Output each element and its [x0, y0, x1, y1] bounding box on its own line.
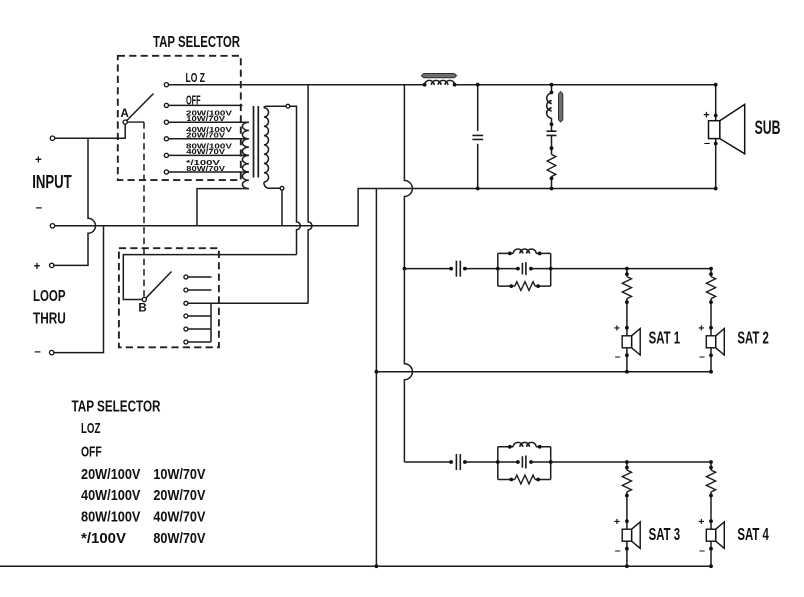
svg-text:LO Z: LO Z [186, 71, 206, 85]
svg-text:LOOP: LOOP [33, 288, 66, 305]
svg-text:LOZ: LOZ [81, 420, 100, 437]
svg-text:TAP SELECTOR: TAP SELECTOR [153, 34, 240, 51]
svg-text:SUB: SUB [755, 118, 781, 139]
svg-text:B: B [138, 302, 146, 314]
svg-text:SAT 1: SAT 1 [649, 327, 681, 347]
svg-text:*/100V: */100V [81, 530, 126, 547]
svg-text:OFF: OFF [186, 94, 201, 108]
svg-text:+: + [614, 516, 620, 528]
svg-text:–: – [615, 544, 621, 556]
svg-text:OFF: OFF [81, 443, 102, 460]
svg-text:20W/70V: 20W/70V [153, 487, 205, 504]
svg-text:10W/70V: 10W/70V [153, 466, 205, 483]
svg-text:–: – [34, 346, 41, 358]
svg-text:+: + [614, 322, 620, 334]
svg-text:–: – [699, 351, 705, 363]
svg-text:10W/70V: 10W/70V [186, 114, 225, 123]
svg-text:40W/70V: 40W/70V [153, 509, 205, 526]
svg-text:SAT 3: SAT 3 [649, 524, 681, 544]
svg-text:80W/70V: 80W/70V [153, 530, 205, 547]
svg-text:–: – [36, 202, 43, 214]
svg-text:40W/100V: 40W/100V [81, 487, 140, 504]
svg-text:20W/100V: 20W/100V [81, 466, 140, 483]
svg-text:SAT 4: SAT 4 [737, 524, 769, 544]
svg-text:–: – [704, 138, 710, 150]
svg-text:+: + [698, 322, 704, 334]
svg-text:+: + [34, 261, 41, 273]
svg-text:+: + [35, 154, 42, 166]
svg-text:TAP SELECTOR: TAP SELECTOR [72, 399, 161, 416]
svg-text:INPUT: INPUT [32, 172, 72, 192]
svg-text:THRU: THRU [33, 310, 66, 327]
svg-text:40W/70V: 40W/70V [186, 147, 225, 156]
svg-text:A: A [121, 108, 129, 120]
svg-text:–: – [615, 351, 621, 363]
svg-text:SAT 2: SAT 2 [737, 327, 769, 347]
svg-text:+: + [703, 109, 709, 121]
svg-text:20W/70V: 20W/70V [186, 131, 225, 140]
svg-text:–: – [699, 544, 705, 556]
svg-text:+: + [698, 516, 704, 528]
svg-text:80W/70V: 80W/70V [186, 164, 225, 173]
svg-text:80W/100V: 80W/100V [81, 509, 140, 526]
